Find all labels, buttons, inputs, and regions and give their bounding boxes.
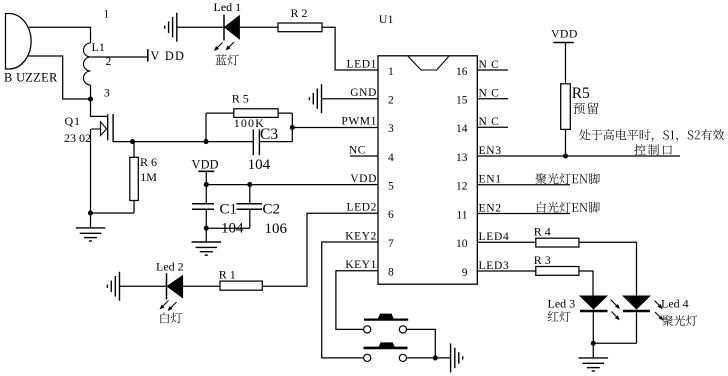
svg-text:23 02: 23 02 xyxy=(64,131,91,145)
svg-text:N C: N C xyxy=(479,116,500,128)
node R5-EN3 junction xyxy=(563,153,568,158)
svg-text:KEY2: KEY2 xyxy=(345,230,377,242)
inductor L1 xyxy=(84,43,91,57)
capacitor C2 106 xyxy=(249,185,251,204)
U1 right NC stubs pins 16,15,14 xyxy=(477,69,508,71)
resistor R3 xyxy=(536,267,579,276)
wire R3 to Led 3 xyxy=(579,271,593,296)
ground at Led 2 xyxy=(119,272,121,301)
label 白灯 xyxy=(160,312,182,323)
LED Led 2 (white) xyxy=(166,273,168,299)
Led 2 light arrows xyxy=(163,301,169,307)
svg-text:2: 2 xyxy=(388,95,394,107)
wire S1 to ground rail xyxy=(407,329,436,358)
svg-text:15: 15 xyxy=(456,95,468,107)
svg-text:EN2: EN2 xyxy=(479,202,502,214)
wire S2 to ground xyxy=(407,357,451,359)
pushbutton switch S1 (KEY1) xyxy=(364,326,371,333)
LED Led 4 (spotlight) xyxy=(623,296,650,309)
resistor R5 (vertical, reserved) xyxy=(561,84,571,130)
ground below LEDs xyxy=(592,343,594,358)
Led 3 light arrows xyxy=(611,300,617,306)
svg-text:16: 16 xyxy=(456,66,468,78)
node LED ground junction xyxy=(591,341,596,346)
svg-text:4: 4 xyxy=(388,152,394,164)
svg-text:13: 13 xyxy=(456,152,468,164)
wire Led4 to ground node xyxy=(593,342,636,344)
pushbutton switch S2 (KEY2) xyxy=(364,354,371,361)
svg-text:R 6: R 6 xyxy=(140,155,157,169)
resistor R1 xyxy=(220,281,262,290)
wire EN3 control line pin 13 xyxy=(477,155,680,157)
resistor R4 xyxy=(536,238,579,247)
wire LED4 pin 10 to R4 xyxy=(477,241,536,243)
note 控制口 xyxy=(634,144,672,155)
wire L1 tap to VDD xyxy=(91,56,148,58)
U1 pin 4 NC stub xyxy=(350,155,378,157)
wire node 3 to Q1 drain xyxy=(91,99,108,116)
svg-text:8: 8 xyxy=(388,267,394,279)
LED Led 3 (red) xyxy=(580,296,607,309)
label 蓝灯 xyxy=(216,54,239,65)
wire buzzer bottom to node 3 xyxy=(29,56,91,99)
wire EN2 pin 11 xyxy=(477,213,570,215)
ground below C1/C2 xyxy=(205,228,207,242)
svg-text:R 2: R 2 xyxy=(291,6,308,20)
svg-text:C1: C1 xyxy=(220,202,238,218)
wire Q1 source to ground node xyxy=(90,129,92,213)
capacitor C3 104 xyxy=(252,129,254,155)
svg-text:14: 14 xyxy=(456,123,468,135)
svg-text:106: 106 xyxy=(265,221,288,237)
Led 4 light arrows xyxy=(655,301,660,306)
resistor R2 xyxy=(278,23,322,32)
svg-text:N C: N C xyxy=(479,88,500,100)
svg-text:PWM1: PWM1 xyxy=(341,116,377,128)
svg-text:3: 3 xyxy=(388,123,394,135)
wire R2 to U1 pin 1 LED1 xyxy=(322,27,378,70)
svg-text:Led 3: Led 3 xyxy=(548,297,576,311)
wire VDD rail to U1 pin 5 xyxy=(206,184,378,186)
svg-text:VDD: VDD xyxy=(192,157,219,171)
svg-text:6: 6 xyxy=(388,209,394,221)
wire R4 to Led 4 xyxy=(579,242,637,296)
power VDD at L1 tap xyxy=(147,49,149,61)
buzzer LS1 xyxy=(6,14,32,70)
svg-text:LED1: LED1 xyxy=(346,58,377,70)
wire Led 1 to R2 xyxy=(239,26,278,28)
node VDD-C1 xyxy=(204,182,209,187)
svg-text:2: 2 xyxy=(106,56,112,68)
node Q1 source / R6 ground junction xyxy=(88,210,93,215)
node gate-R6 junction xyxy=(130,139,135,144)
ground at Led 1 xyxy=(176,13,178,42)
svg-text:R 3: R 3 xyxy=(534,253,551,267)
wire U1 pin 7 KEY2 to switch S2 xyxy=(322,242,378,358)
wire LED3 pin 9 to R3 xyxy=(477,270,536,272)
label 白光灯EN脚 xyxy=(537,202,600,213)
wire L1 bottom xyxy=(90,85,92,99)
svg-text:B UZZER: B UZZER xyxy=(4,71,58,85)
label 聚光灯 xyxy=(662,315,697,326)
svg-text:104: 104 xyxy=(248,157,271,173)
node R5 left junction xyxy=(203,139,208,144)
svg-text:9: 9 xyxy=(462,267,468,279)
resistor R5 100K (gate network) xyxy=(206,112,234,114)
wire buzzer top to L1 pin 1 xyxy=(29,27,91,43)
wire R1 to U1 pin 6 LED2 xyxy=(262,213,378,286)
ground below Q1 xyxy=(90,213,92,228)
svg-text:KEY1: KEY1 xyxy=(345,259,377,271)
wire ground to U1 pin 2 GND xyxy=(322,98,379,100)
IC U1 body xyxy=(378,56,477,284)
svg-text:7: 7 xyxy=(388,238,394,250)
node 3 junction xyxy=(88,96,93,101)
label 聚光灯EN脚 xyxy=(536,173,600,184)
svg-text:LED3: LED3 xyxy=(479,260,510,272)
svg-text:L1: L1 xyxy=(92,40,105,54)
svg-text:R 5: R 5 xyxy=(232,92,249,106)
svg-text:Led 4: Led 4 xyxy=(661,297,689,311)
svg-text:1: 1 xyxy=(104,9,110,21)
wire PWM1 to U1 pin 3 xyxy=(292,127,378,129)
svg-text:3: 3 xyxy=(104,87,110,99)
svg-text:GND: GND xyxy=(350,87,377,99)
Led 1 light arrows xyxy=(218,43,223,48)
svg-text:Q1: Q1 xyxy=(65,114,81,128)
U1 notch xyxy=(408,56,450,70)
svg-text:U1: U1 xyxy=(379,12,394,26)
capacitor C1 104 xyxy=(205,185,207,204)
LED Led 1 (blue) xyxy=(223,14,225,40)
svg-text:EN3: EN3 xyxy=(479,145,502,157)
ground at U1 GND pin xyxy=(321,84,323,113)
node R5-C3 right / PWM1 junction xyxy=(291,113,293,142)
svg-text:1: 1 xyxy=(388,66,394,78)
wire Led 2 to R1 xyxy=(183,285,220,287)
svg-text:VDD: VDD xyxy=(350,173,377,185)
resistor R6 1M xyxy=(133,142,135,158)
svg-text:R 1: R 1 xyxy=(219,267,236,281)
label 预留 xyxy=(573,102,598,114)
wire ground to Led 2 xyxy=(120,285,167,287)
svg-text:5: 5 xyxy=(388,181,394,193)
svg-text:10: 10 xyxy=(456,238,468,250)
svg-text:V DD: V DD xyxy=(151,49,186,63)
svg-text:LED2: LED2 xyxy=(346,202,377,214)
transistor Q1 (2302 MOSFET) xyxy=(107,114,109,140)
svg-text:EN1: EN1 xyxy=(479,174,502,186)
ground at switches xyxy=(450,343,452,372)
wire EN1 pin 12 xyxy=(477,184,570,186)
svg-text:N C: N C xyxy=(479,59,500,71)
wire Q1 gate line xyxy=(113,141,253,143)
svg-text:Led 2: Led 2 xyxy=(156,260,184,274)
label 红灯 xyxy=(548,311,571,322)
svg-text:12: 12 xyxy=(456,181,468,193)
svg-text:VDD: VDD xyxy=(551,26,578,40)
note 处于高电平时 S1 S2 有效 xyxy=(579,129,724,141)
svg-text:NC: NC xyxy=(349,144,366,156)
svg-text:11: 11 xyxy=(456,209,467,221)
svg-text:R 4: R 4 xyxy=(534,225,551,239)
node VDD-C2 xyxy=(247,182,252,187)
node C1-C2 ground junction xyxy=(204,226,209,231)
svg-text:R5: R5 xyxy=(572,85,590,102)
svg-text:1M: 1M xyxy=(140,170,157,184)
wire U1 pin 8 KEY1 to switch S1 xyxy=(336,271,378,330)
svg-text:LED4: LED4 xyxy=(479,231,510,243)
svg-text:C3: C3 xyxy=(260,126,278,143)
node switch ground junction xyxy=(433,355,438,360)
svg-text:C2: C2 xyxy=(263,202,281,218)
wire ground to Led 1 xyxy=(177,26,224,28)
svg-text:Led 1: Led 1 xyxy=(214,0,242,14)
